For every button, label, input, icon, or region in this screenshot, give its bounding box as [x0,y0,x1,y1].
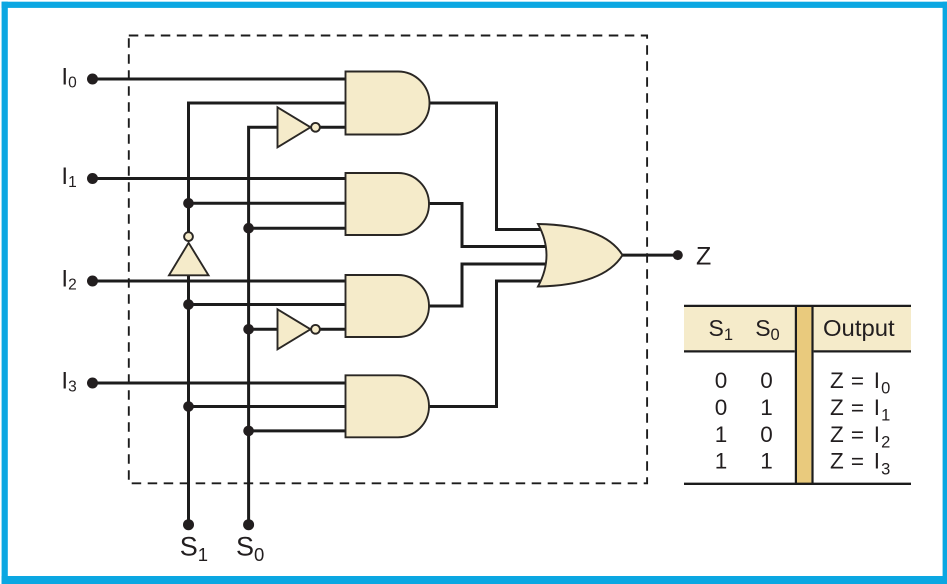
inverter U5 (S1, pointing up) [169,232,209,275]
truth table stripe right rule [811,306,813,484]
wire S1 branch to AND U4 [189,405,353,408]
wire AND U1 output to OR U8 [429,103,552,230]
wire U6 output to AND U1 [319,126,352,129]
or-gate U8 [538,224,623,287]
wire S1-bar vertical and elbow to AND U1 [189,103,353,233]
wire S0 branch to AND U2 [249,227,352,230]
wire AND U2 output to OR U8 [429,204,552,247]
truth table header rule [684,350,795,352]
junction S1-bar to U2 [183,198,194,209]
wire S1 vertical (below inverter U5) [187,275,190,524]
svg-text:0: 0 [715,368,728,393]
wire S1-bar branch to AND U2 [189,202,353,205]
svg-text:Output: Output [823,315,895,341]
node I0 terminal [87,74,98,85]
junction S0 to U7 [243,324,254,335]
wire S1 branch to AND U3 [189,303,353,306]
junction S0 to U4 [243,426,254,437]
wire I3 input [93,382,353,385]
svg-text:0: 0 [760,368,773,393]
svg-text:Z: Z [696,243,711,271]
node S0 terminal [243,519,254,530]
svg-text:1: 1 [715,422,728,447]
node I3 terminal [87,378,98,389]
truth table top rule [684,305,911,307]
svg-text:0: 0 [715,395,728,420]
junction S1 to U4 [183,401,194,412]
truth table stripe left rule [795,306,797,484]
wire I1 input [93,177,353,180]
wire AND U4 output to OR U8 [429,281,552,407]
and-gate U3 [346,275,430,337]
wire AND U3 output to OR U8 [429,264,552,306]
node I1 terminal [87,173,98,184]
svg-text:1: 1 [760,395,773,420]
multiplexer boundary (dashed box) [129,36,647,484]
truth table gold stripe [797,307,811,483]
node S1 terminal [183,519,194,530]
svg-text:1: 1 [760,449,773,474]
wire I0 input [93,78,353,81]
node Z terminal [673,250,683,260]
wire S0 vertical and elbow to inverter U6 [249,127,279,524]
wire Z output [622,254,678,257]
truth table header band [684,307,911,350]
and-gate U2 [346,173,430,235]
junction S1 to U3 [183,299,194,310]
wire I2 input [93,280,353,283]
and-gate U4 [346,375,429,437]
node I2 terminal [87,276,98,287]
wire U7 output to AND U3 [319,328,352,331]
inverter U7 (S0 to U3) [278,309,320,349]
wire S0 branch to AND U4 [249,429,352,432]
junction S0 to U2 [243,223,254,234]
svg-text:0: 0 [760,422,773,447]
wire S0 branch to inverter U7 [249,328,279,331]
svg-text:1: 1 [715,449,728,474]
inverter U6 (S0 to U1) [278,107,320,147]
truth table bottom rule [684,483,911,485]
and-gate U1 [346,72,430,135]
